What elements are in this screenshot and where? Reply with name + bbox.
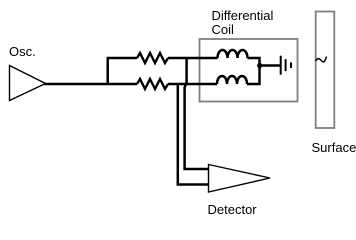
coil enclosure box: [200, 39, 298, 102]
ground bar 3: [290, 62, 292, 68]
wire: bottom resistor to coil: [168, 83, 217, 86]
wire: coil right-side connector: [247, 58, 260, 84]
label Detector: [208, 203, 257, 217]
surface squiggle: [316, 57, 327, 62]
label Surface: [312, 141, 356, 155]
wire: bottom tap to detector (vertical A): [178, 84, 209, 185]
wire: top tap to detector with crossover hop (vertical B): [185, 58, 209, 169]
inductor L-top: [218, 50, 248, 58]
wire: top branch to resistor: [107, 57, 137, 60]
label Differential Coil: [212, 9, 274, 37]
oscillator amp triangle: [10, 66, 46, 101]
wire: osc output (main, y=84): [45, 83, 138, 86]
inductor L-bottom: [217, 76, 247, 84]
detector amp triangle: [209, 165, 271, 193]
ground bar 1: [280, 56, 282, 75]
resistor R-top: [137, 53, 168, 63]
ground bar 2: [285, 59, 287, 71]
wire: to ground: [260, 64, 281, 67]
label Osc.: [9, 45, 36, 59]
surface bar: [316, 12, 335, 129]
resistor R-bottom: [137, 79, 168, 89]
node junction dot: [257, 63, 262, 68]
wire: top branch resistor to coil: [168, 57, 218, 60]
wire: junction riser x=107.7: [106, 58, 109, 84]
